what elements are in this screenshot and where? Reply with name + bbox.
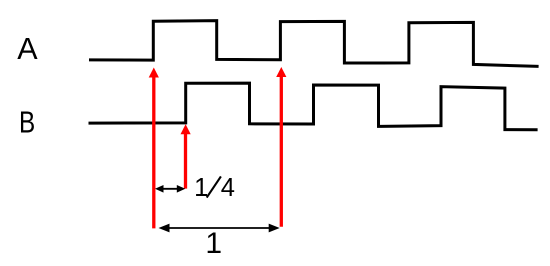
red marker arrow at B rising edge 1 <box>181 124 191 188</box>
svg-text:1: 1 <box>194 174 208 202</box>
waveform B <box>89 83 538 130</box>
svg-text:A: A <box>17 32 38 66</box>
dimension arrow 1 period <box>159 224 280 233</box>
waveform A <box>89 21 539 67</box>
svg-text:1: 1 <box>205 227 222 260</box>
label 1/4 <box>194 174 235 202</box>
dimension arrow 1/4 period <box>155 185 185 193</box>
red marker arrow at A rising edge 1 <box>149 68 159 229</box>
red marker arrow at A rising edge 2 <box>276 67 286 227</box>
svg-text:B: B <box>19 105 35 139</box>
svg-text:4: 4 <box>221 174 235 202</box>
